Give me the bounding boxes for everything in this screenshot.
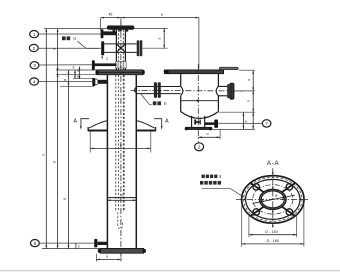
cross fitting X diagonals (116, 44, 125, 53)
vessel right nozzle cap (216, 86, 218, 95)
cross center dot (120, 47, 123, 50)
vessel wall right upper (217, 74, 219, 87)
bolt circle dimension (249, 230, 297, 236)
balloon 6 (195, 143, 204, 151)
svg-text:1: 1 (42, 154, 46, 156)
svg-text:A-A: A-A (267, 160, 280, 167)
vessel right nozzle flange (227, 84, 229, 98)
svg-text:d: d (52, 48, 56, 50)
svg-text:2: 2 (78, 245, 80, 249)
svg-text:4: 4 (33, 79, 36, 84)
top flange cap (108, 26, 133, 30)
svg-text:A: A (165, 119, 169, 125)
flange pair bolt right (142, 70, 145, 75)
second left arm pipe (95, 63, 117, 66)
column mid joint line (107, 197, 136, 199)
upper left arm pipe (103, 31, 116, 35)
hole note text (200, 174, 221, 185)
vessel right dim extension nozzle (235, 90, 255, 92)
balloon 1 (30, 30, 39, 37)
extension line top flange right (134, 27, 168, 29)
outer dimension (242, 239, 304, 245)
svg-text:2: 2 (106, 57, 108, 61)
svg-text:a: a (63, 79, 67, 81)
balloon 5 (31, 240, 40, 247)
svg-text:a: a (120, 143, 122, 147)
svg-text:1: 1 (33, 32, 36, 37)
vessel internal tray line (181, 100, 218, 102)
vessel top flange left point (163, 70, 168, 74)
svg-text:3: 3 (73, 65, 75, 69)
svg-text:u: u (106, 255, 108, 259)
top pipe wall left (115, 29, 117, 69)
svg-text:5: 5 (34, 241, 37, 246)
flange view bore outer (260, 189, 286, 209)
vessel right dim extension flange (211, 128, 255, 130)
leader balloon 5 (39, 242, 94, 244)
connecting pipe left cap (135, 87, 137, 94)
svg-text:a: a (161, 12, 163, 16)
connecting pipe center line (131, 89, 244, 92)
column bore dimension (107, 194, 136, 202)
svg-text:II: II (73, 36, 75, 41)
dimension line H5 small (73, 65, 81, 79)
extension line nozzle bottom (60, 85, 94, 87)
column center line (120, 21, 122, 256)
svg-text:2: 2 (33, 46, 36, 51)
tee hatch section (116, 61, 127, 68)
svg-text:u: u (207, 132, 209, 136)
diagonal spoke top-left (251, 183, 264, 192)
svg-text:0: 0 (63, 198, 67, 200)
vessel right nozzle blind knob (229, 83, 234, 100)
extension line vessel center drop (198, 18, 200, 69)
outer dim arrow right (300, 199, 304, 201)
vessel top flange tab (219, 67, 238, 70)
dimension line H3 (63, 70, 69, 249)
second left arm flange (92, 60, 95, 70)
svg-text:Φ: Φ (275, 194, 278, 198)
vessel bottom flange bolt right (209, 127, 212, 130)
wing span dimension (90, 132, 151, 153)
flange view outer ellipse (242, 176, 304, 224)
balloon 2 (29, 44, 38, 51)
connecting pipe mid flange pair (154, 82, 161, 98)
bottom left nozzle pipe (98, 242, 108, 245)
svg-text:Ⅱ: Ⅱ (219, 174, 221, 179)
bolt circle dim extension left (248, 215, 250, 238)
dimension line V right of top pipe (158, 28, 165, 48)
flange pair bolt left (96, 70, 99, 75)
vessel wall left upper (180, 74, 182, 87)
svg-text:b: b (52, 161, 56, 163)
bore dim arrow left (260, 199, 264, 201)
connecting pipe top wall (136, 86, 180, 88)
leader valve note 2 (141, 94, 152, 104)
vessel top flange (164, 70, 223, 74)
bolt hole bottom-right (286, 209, 292, 215)
svg-text:3: 3 (33, 63, 36, 68)
column inner dashed tube right (123, 75, 125, 212)
vessel center dot (197, 100, 199, 102)
dimension line H1 overall height (42, 29, 48, 249)
svg-text:45: 45 (108, 13, 112, 17)
vessel right nozzle walls (218, 86, 228, 95)
column inner dashed tube left (115, 75, 117, 212)
cross fitting horizontal pipe (104, 44, 137, 53)
dimension line H2 (52, 29, 58, 249)
outer dim extension right (303, 205, 305, 247)
extension line cross right (143, 47, 168, 49)
svg-text:s: s (158, 38, 162, 40)
dimension line top horizontal (101, 12, 199, 18)
column left nozzle pipe (98, 80, 108, 84)
hole note leader (202, 189, 245, 198)
leader balloon 4 (39, 81, 93, 83)
bottom border line (0, 270, 340, 272)
diagonal spoke top-right (282, 183, 295, 192)
extension line from left arm flange up (100, 18, 102, 31)
vessel sub dimension right (243, 112, 249, 129)
extension baseline bottom (42, 248, 100, 250)
bore dim arrow right (282, 199, 286, 201)
flange view bolt circle (253, 185, 293, 214)
vessel right dim extension top (239, 69, 255, 71)
vessel wall left lower (180, 96, 182, 112)
svg-text:s: s (244, 120, 248, 122)
vessel dimension chain right (247, 70, 255, 129)
cross right flange pair (137, 40, 143, 56)
upper left arm flange (101, 29, 104, 38)
balloon 3 (30, 62, 39, 69)
flange view raised face dashed ellipse (244, 178, 302, 222)
flange view bore inner (261, 191, 284, 208)
top flange bolt stubs (113, 29, 129, 31)
vessel center line (197, 64, 199, 142)
note small phi with arrow (101, 54, 108, 60)
bottom dimension (96, 254, 121, 262)
column inner dashed dip tube left (118, 75, 120, 210)
column left nozzle bolt lines (95, 79, 97, 85)
top pipe inner dashed lines (119, 30, 124, 70)
vessel bottom flange bolt left (185, 127, 188, 130)
leader valve note 1 (78, 41, 100, 48)
vessel neck wall right (204, 116, 206, 128)
svg-text:s: s (247, 100, 251, 102)
bore vertical dim arrows (272, 186, 274, 189)
balloon 7 (262, 120, 271, 127)
vessel wall right lower (217, 96, 219, 112)
dimension line H4 small stack (74, 69, 79, 79)
bottom flange bolt left (98, 249, 101, 253)
extension line flange pair bottom (56, 74, 98, 76)
svg-text:A: A (73, 119, 77, 125)
vessel right dim extension dish (219, 111, 255, 113)
leader balloon 2 (38, 47, 101, 49)
bore diameter dimension line (253, 194, 296, 203)
column wall right (135, 75, 137, 249)
vessel neck wall left (191, 116, 193, 128)
bolt hole bottom-left (253, 209, 259, 215)
bottom flange bar (100, 248, 143, 253)
vessel bottom flange (187, 127, 211, 129)
vessel right nozzle knob hatch (231, 84, 233, 99)
top pipe wall right (124, 29, 126, 69)
extension line nozzle top (73, 77, 94, 79)
svg-text:u: u (247, 79, 251, 81)
leader balloon 7 (218, 122, 262, 124)
top flange end knob left (107, 25, 111, 29)
dip tube J hook (118, 212, 123, 229)
diagonal spoke bottom-left (251, 207, 264, 216)
bottom left nozzle flange (94, 239, 97, 248)
bolt hole top-left (253, 184, 259, 190)
column left nozzle flange (92, 78, 95, 86)
cross left flange (101, 41, 104, 55)
neck internal marks (194, 120, 201, 125)
left support wing (88, 121, 108, 131)
flange view second ellipse (246, 179, 300, 219)
dimension tick small bottom (76, 243, 80, 249)
extension line flange pair top (56, 69, 98, 71)
vessel bottom dimension (198, 130, 220, 140)
svg-text:7: 7 (265, 121, 268, 126)
column inner dashed dip tube right (122, 75, 124, 210)
svg-text:II: II (164, 101, 166, 106)
section arrow A right (154, 119, 169, 130)
flange view horizontal center line (236, 198, 310, 200)
vessel dished bottom (181, 112, 219, 119)
label valve note 2 (153, 101, 167, 106)
vessel left nozzle cap (181, 86, 183, 95)
extension line pipe center up (120, 18, 122, 26)
column wall left (106, 75, 108, 249)
diagonal spoke bottom-right (282, 207, 295, 216)
right support wing (136, 121, 156, 131)
connecting pipe bottom wall (136, 93, 180, 95)
section arrow A left (73, 119, 89, 130)
column flange pair upper bar (98, 70, 143, 73)
center line arrow bottom (272, 223, 274, 227)
leader balloon 1 (39, 33, 101, 35)
center line arrow top (272, 172, 274, 176)
label valve note 1 (62, 36, 76, 41)
flange view vertical center line (272, 168, 274, 227)
bolt hole top-right (286, 184, 292, 190)
leader balloon 3 (39, 64, 92, 66)
neck right pipe flange (214, 120, 218, 128)
svg-text:D - 160: D - 160 (267, 239, 279, 243)
bolt circle dim extension right (296, 215, 298, 238)
outer dim arrow left (242, 199, 246, 201)
extension line top flange left (44, 28, 108, 30)
neck right pipe (205, 122, 215, 125)
svg-text:2: 2 (198, 145, 201, 150)
balloon 4 (30, 78, 39, 85)
top flange end knob right (130, 25, 134, 29)
svg-text:D - 140: D - 140 (265, 230, 277, 234)
bottom flange bolt right (143, 249, 146, 253)
column flange pair lower bar (98, 72, 143, 75)
outer dim extension left (241, 205, 243, 247)
svg-text:m: m (120, 194, 123, 198)
